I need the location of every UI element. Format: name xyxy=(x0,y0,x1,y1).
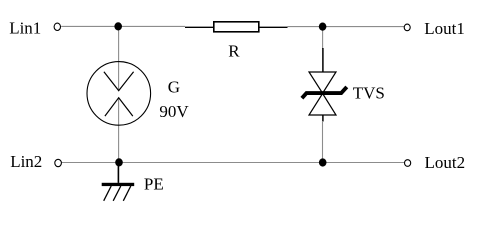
svg-text:Lout1: Lout1 xyxy=(424,19,465,38)
svg-text:Lin2: Lin2 xyxy=(10,152,42,171)
svg-text:TVS: TVS xyxy=(353,84,385,103)
svg-text:G: G xyxy=(168,78,180,97)
svg-text:Lin1: Lin1 xyxy=(9,19,41,38)
svg-text:Lout2: Lout2 xyxy=(425,153,466,172)
svg-text:90V: 90V xyxy=(159,102,189,121)
svg-text:R: R xyxy=(228,42,240,61)
svg-text:PE: PE xyxy=(144,175,164,194)
